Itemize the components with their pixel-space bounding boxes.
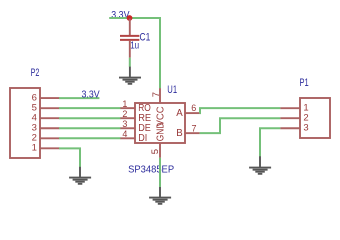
- wire P2.6 to 3.3V label: [59, 97, 99, 99]
- ground (U1 GND): [149, 187, 171, 204]
- svg-text:5: 5: [149, 149, 160, 154]
- svg-text:3: 3: [303, 123, 308, 134]
- wire P2.3 to U1 DE: [59, 127, 121, 129]
- ground (P1 pin3): [249, 156, 271, 174]
- ground (below C1): [119, 67, 141, 84]
- svg-text:GND: GND: [155, 123, 166, 142]
- U1 bottom pin (GND) stub: [159, 143, 161, 158]
- wire cap to ground: [129, 58, 131, 67]
- wire P1.3 to ground: [260, 128, 280, 156]
- connector P1: [300, 98, 330, 138]
- U1 right pin stub A: [185, 112, 200, 114]
- svg-text:B: B: [176, 128, 182, 139]
- wire A to P1.1: [200, 108, 281, 113]
- U1 left pin stubs: [120, 108, 135, 138]
- ground (P2 pin1): [69, 167, 91, 184]
- svg-text:6: 6: [191, 103, 196, 113]
- U1 top pin (VCC) stub: [159, 88, 161, 103]
- wire P2.2 to U1 DI: [59, 137, 121, 139]
- svg-text:4: 4: [122, 129, 127, 139]
- svg-text:3.3V: 3.3V: [82, 90, 101, 101]
- svg-text:3: 3: [122, 119, 127, 129]
- connector P2: [10, 88, 40, 158]
- wire B to P1.2: [200, 118, 281, 133]
- junction dot: [127, 15, 133, 21]
- svg-text:DI: DI: [138, 133, 147, 144]
- svg-text:2: 2: [122, 109, 127, 119]
- svg-text:1u: 1u: [130, 40, 139, 51]
- wire U1 GND to ground: [159, 158, 161, 187]
- wire 3.3V to U1 VCC: [109, 18, 160, 88]
- P2 pin stubs: [40, 98, 59, 148]
- svg-text:U1: U1: [167, 84, 177, 96]
- svg-text:SP3485EP: SP3485EP: [128, 164, 174, 175]
- capacitor C1: [120, 19, 139, 58]
- wire P2.4 to U1 RE: [59, 117, 121, 119]
- wire P2.1 to ground: [59, 148, 80, 167]
- U1 right pin stub B: [185, 132, 200, 134]
- IC U1 body: [135, 103, 185, 143]
- svg-text:1: 1: [122, 99, 127, 109]
- P1 pin stubs: [280, 108, 300, 128]
- svg-text:C1: C1: [140, 31, 151, 43]
- svg-text:7: 7: [150, 92, 161, 97]
- P1 pin numbers: [303, 103, 308, 134]
- svg-text:P2: P2: [31, 67, 40, 79]
- svg-text:A: A: [176, 108, 183, 119]
- P2 pin numbers: [32, 92, 37, 153]
- svg-text:7: 7: [192, 123, 197, 133]
- svg-text:1: 1: [32, 143, 37, 154]
- wire P2.5 to U1 RO: [59, 107, 121, 109]
- svg-text:P1: P1: [300, 77, 309, 89]
- U1 left pin numbers: [122, 99, 127, 139]
